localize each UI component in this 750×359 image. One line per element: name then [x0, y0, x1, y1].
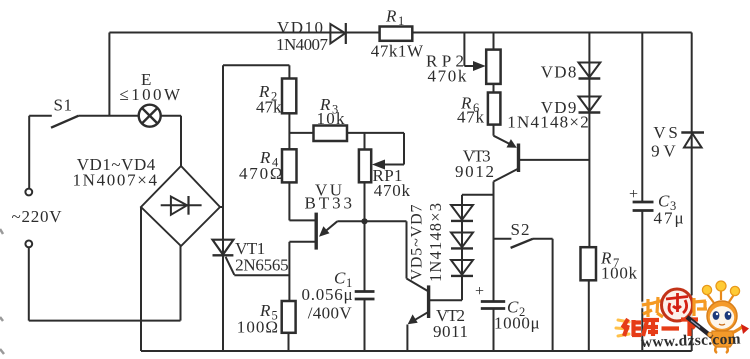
- watermark red text weikuyixia: [622, 319, 698, 336]
- wire VD8 VD9 column: [588, 33, 590, 248]
- wire bottom rail: [141, 350, 692, 352]
- zener diode VS 9V: [681, 133, 704, 148]
- wire left vertical from top rail to lamp line: [108, 33, 110, 116]
- wire bridge bottom vertex down: [180, 246, 182, 321]
- wire C3 column: [641, 33, 643, 203]
- svg-text:R: R: [385, 7, 397, 26]
- transistor VT2 9011: [407, 221, 429, 351]
- wire bottom-left horizontal to bridge: [29, 320, 181, 322]
- svg-text:1: 1: [398, 14, 404, 28]
- bridge rectifier VD1~VD4 diamond: [141, 166, 220, 246]
- svg-text:1000μ: 1000μ: [494, 314, 540, 333]
- svg-text:0.056μ: 0.056μ: [302, 285, 353, 304]
- svg-text:47k: 47k: [457, 108, 485, 127]
- wire RP2 to R6: [493, 84, 495, 93]
- node junction dot at C1/RP1/emitter: [361, 218, 367, 224]
- svg-text:1N4148×3: 1N4148×3: [426, 203, 445, 282]
- watermark magnifier with xin: [662, 289, 693, 321]
- potentiometer RP1: [359, 150, 371, 183]
- wire C1 bottom: [364, 299, 366, 351]
- svg-text:100k: 100k: [601, 264, 638, 283]
- capacitor C3: [633, 202, 654, 211]
- diode VD6: [451, 233, 473, 249]
- svg-text:470Ω: 470Ω: [239, 164, 283, 183]
- wire RP1 top lead: [364, 133, 366, 150]
- svg-text:1N4007×4: 1N4007×4: [73, 171, 158, 190]
- wire R2 to R4: [288, 113, 290, 149]
- svg-text:VS: VS: [653, 123, 678, 142]
- transistor VT3 9012: [494, 125, 590, 182]
- svg-text:/400V: /400V: [308, 304, 353, 323]
- diode VD5: [451, 205, 473, 221]
- terminal upper circle: [25, 189, 32, 196]
- wire bridge left vertex down to bottom rail: [140, 207, 142, 351]
- wire VT3 collector down (C2 line): [493, 182, 495, 302]
- svg-text:9011: 9011: [433, 322, 468, 341]
- RP2 wiper arrowhead: [473, 61, 486, 71]
- svg-text:S1: S1: [54, 96, 73, 115]
- diode VD7: [451, 260, 473, 276]
- resistor R6: [488, 93, 501, 125]
- wire C2 bottom: [493, 309, 495, 352]
- wire chain top vertical: [461, 195, 463, 300]
- wire VT1 anode vertical: [222, 65, 224, 351]
- svg-text:100Ω: 100Ω: [237, 318, 278, 337]
- wire R5 bottom: [288, 333, 290, 351]
- edge smudges: [0, 229, 4, 354]
- wire RP1 bottom to C1: [364, 182, 366, 291]
- watermark char pian: [694, 298, 707, 316]
- capacitor C1: [355, 292, 375, 300]
- svg-text:1N4148×2: 1N4148×2: [507, 113, 588, 132]
- thyristor VT1 2N6565: [213, 240, 290, 276]
- wire RP2 wiper from top rail: [464, 33, 475, 67]
- svg-text:S2: S2: [511, 220, 530, 239]
- svg-text:9V: 9V: [651, 142, 676, 161]
- resistor R2: [282, 79, 296, 114]
- svg-text:9012: 9012: [455, 162, 494, 181]
- wire top horizontal VT1 to R2: [223, 65, 289, 78]
- wire R7 bottom: [588, 280, 590, 351]
- lamp E: [139, 105, 161, 127]
- UJT emitter wire with arrow: [322, 221, 407, 234]
- diode VD8: [579, 63, 601, 79]
- wire bridge right vertex stub: [220, 206, 223, 208]
- svg-text:10k: 10k: [317, 109, 346, 128]
- transistor VU BT33 bar: [315, 213, 318, 250]
- svg-text:≤100W: ≤100W: [120, 85, 181, 104]
- capacitor C2: [481, 302, 505, 309]
- svg-text:VD8: VD8: [541, 63, 577, 82]
- potentiometer RP2: [486, 50, 500, 84]
- RP1 wiper arrowhead: [372, 160, 385, 170]
- wire chain bottom to VT2 base: [430, 299, 462, 301]
- wire chain top horizontal: [462, 194, 494, 196]
- mascot: [687, 281, 749, 353]
- wire right side rail: [691, 33, 693, 352]
- wire lamp to bridge top: [161, 116, 181, 166]
- resistor R5: [282, 301, 296, 333]
- svg-text:BT33: BT33: [305, 194, 353, 213]
- bridge inner diode: [161, 196, 202, 215]
- wire branch to R3: [289, 132, 313, 134]
- svg-text:~220V: ~220V: [12, 207, 63, 226]
- svg-text:1N4007: 1N4007: [276, 35, 329, 54]
- svg-text:470k: 470k: [428, 67, 467, 86]
- watermark char zhao with white halo: [642, 297, 706, 317]
- svg-text:www.dzsc.com: www.dzsc.com: [641, 331, 742, 351]
- wire S1 left vertical down to terminal: [28, 116, 30, 189]
- switch S2: [494, 239, 553, 351]
- svg-text:47μ: 47μ: [654, 209, 684, 228]
- wire R3 right to RP1 wiper: [347, 133, 404, 165]
- wire lower terminal down: [28, 247, 30, 320]
- wire UJT base1 down to gate junction and R5: [289, 242, 315, 301]
- watermark speed dashes: [616, 320, 629, 336]
- terminal lower circle: [25, 241, 32, 248]
- svg-text:2N6565: 2N6565: [235, 256, 289, 275]
- switch S1: [29, 116, 139, 128]
- diode VD9: [579, 97, 601, 113]
- resistor R3: [314, 126, 348, 142]
- svg-text:470k: 470k: [374, 181, 411, 200]
- wire C3 bottom: [641, 211, 643, 352]
- wire RP2 top lead: [493, 33, 495, 50]
- resistor R4: [282, 149, 297, 182]
- svg-text:47k: 47k: [256, 98, 282, 117]
- resistor R1: [380, 27, 413, 41]
- svg-text:+: +: [629, 186, 638, 203]
- diode VD10: [330, 23, 345, 44]
- svg-text:47k1W: 47k1W: [371, 42, 424, 61]
- resistor R7: [581, 247, 597, 280]
- svg-text:+: +: [475, 283, 484, 300]
- wire R4 bottom to UJT base2: [289, 182, 315, 220]
- wire top rail: [109, 32, 691, 34]
- svg-text:VD5~VD7: VD5~VD7: [409, 205, 426, 281]
